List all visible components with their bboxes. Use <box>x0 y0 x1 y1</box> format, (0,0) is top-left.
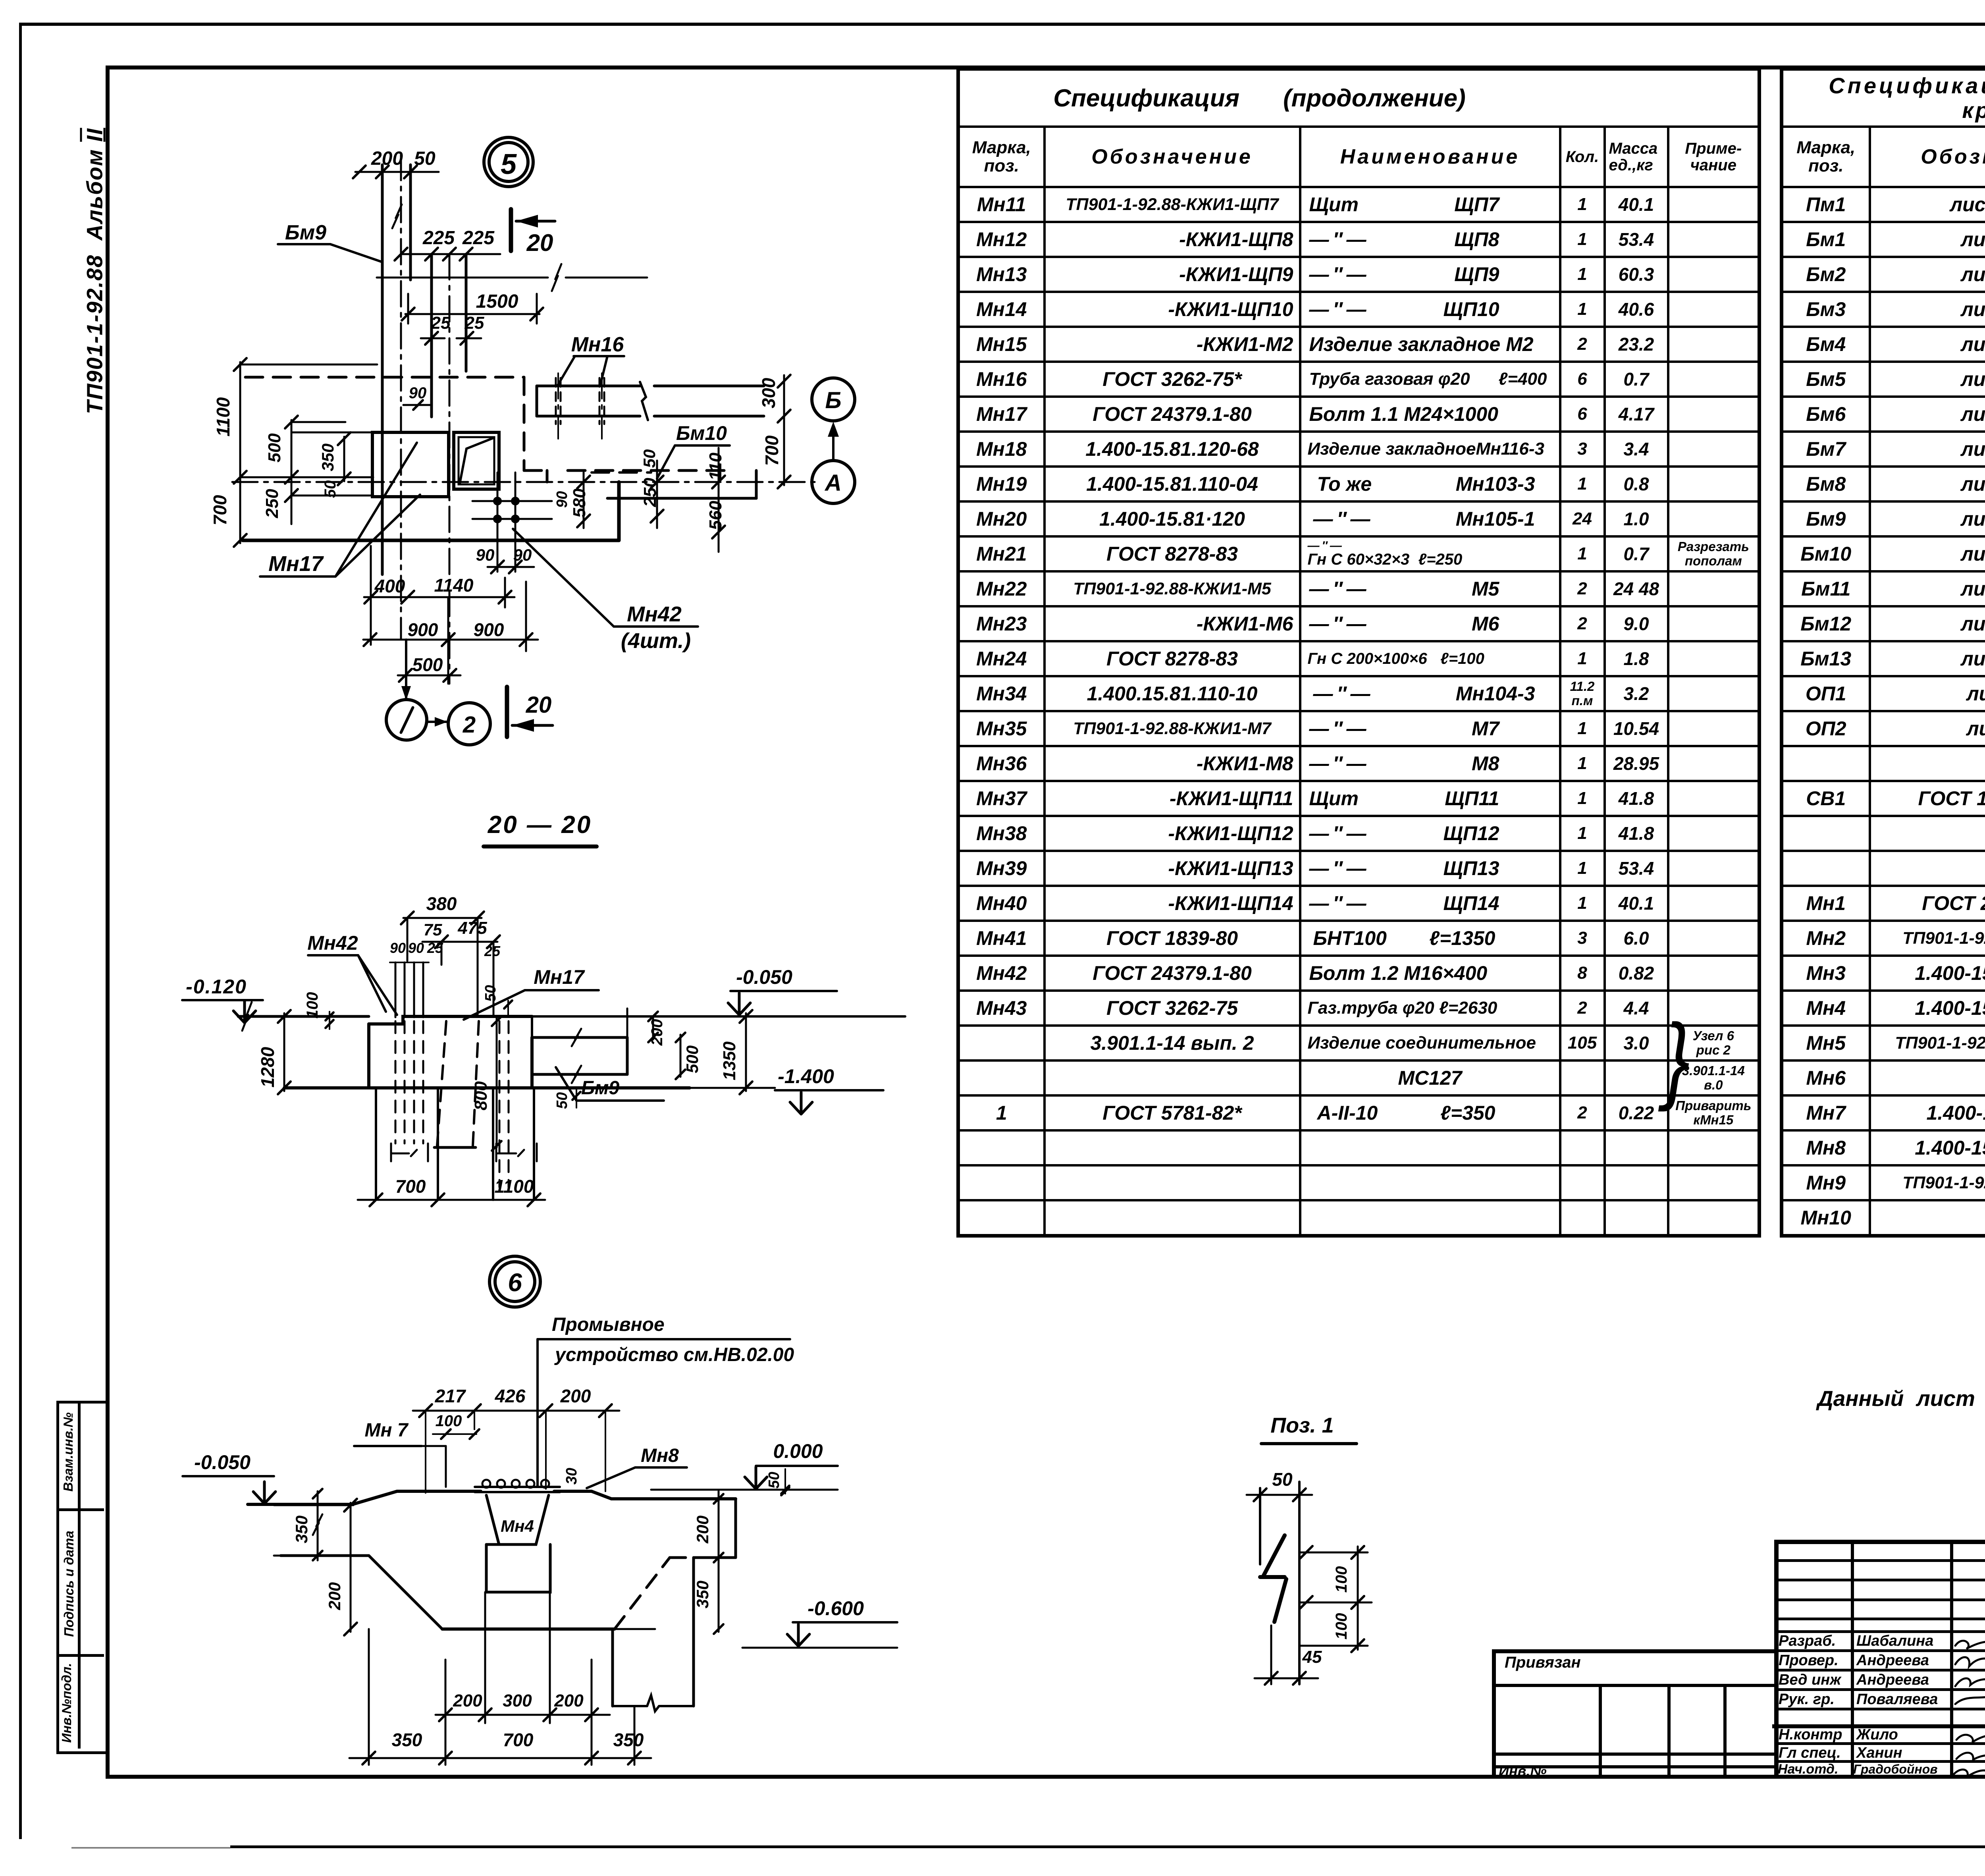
svg-text:350: 350 <box>693 1581 712 1608</box>
left dim structure <box>239 362 241 543</box>
right underground leg <box>611 1629 614 1706</box>
svg-text:580: 580 <box>570 488 589 518</box>
svg-text:Мн17: Мн17 <box>534 966 585 988</box>
node mark circle 5 <box>484 137 533 187</box>
title block (основная надпись) <box>1774 1540 1985 1544</box>
panel edge verticals <box>430 254 433 417</box>
svg-text:1350: 1350 <box>720 1041 739 1080</box>
dashed panel outline <box>245 376 524 379</box>
svg-text:500: 500 <box>683 1045 701 1073</box>
svg-text:Мн 7: Мн 7 <box>364 1420 409 1441</box>
bolt group Mn42 <box>497 472 499 572</box>
svg-text:350: 350 <box>318 443 337 471</box>
axis A dash-dot <box>232 481 815 483</box>
axis circles B/A <box>812 378 855 421</box>
svg-text:1100: 1100 <box>213 397 233 436</box>
dim 1280 <box>283 1013 285 1091</box>
trough Mn4 <box>486 1495 549 1544</box>
svg-text:20: 20 <box>526 229 553 256</box>
svg-text:5: 5 <box>501 148 517 180</box>
dim 800 <box>496 1016 498 1147</box>
svg-text:50: 50 <box>766 1472 782 1488</box>
left specification table (continuation) <box>956 67 1761 1238</box>
svg-text:90: 90 <box>390 940 406 956</box>
responsible persons rows <box>1779 1633 1836 1650</box>
svg-text:Бм9: Бм9 <box>285 221 326 244</box>
beam Bm10 plan lines <box>607 497 756 500</box>
svg-text:350: 350 <box>292 1515 311 1543</box>
svg-text:1100: 1100 <box>495 1176 534 1197</box>
svg-text:200: 200 <box>554 1691 584 1710</box>
svg-text:100: 100 <box>304 992 321 1019</box>
plan bottom edge <box>243 539 619 542</box>
left ground line <box>238 1015 369 1018</box>
svg-text:30: 30 <box>563 1468 580 1485</box>
left dims 350/200 <box>317 1491 319 1560</box>
svg-text:-1.400: -1.400 <box>778 1065 834 1087</box>
svg-text:75: 75 <box>424 920 442 939</box>
privyazan label <box>1505 1654 1581 1672</box>
svg-text:90: 90 <box>476 546 495 564</box>
svg-text:350: 350 <box>392 1729 422 1750</box>
svg-text:-0.050: -0.050 <box>736 966 792 988</box>
svg-text:700: 700 <box>761 435 782 466</box>
svg-text:(4шт.): (4шт.) <box>621 629 691 653</box>
long top line with break <box>377 277 548 279</box>
svg-text:Б: Б <box>825 388 841 413</box>
ground profile <box>248 1491 481 1504</box>
svg-text:900: 900 <box>474 619 504 640</box>
svg-text:-0.600: -0.600 <box>807 1597 864 1620</box>
svg-text:50: 50 <box>482 985 499 1002</box>
svg-text:250: 250 <box>262 489 282 519</box>
svg-text:50: 50 <box>1272 1469 1293 1490</box>
svg-text:Мн4: Мн4 <box>501 1517 534 1535</box>
pit outline <box>281 1554 369 1557</box>
svg-text:45: 45 <box>1302 1647 1322 1667</box>
dashed lower right outline <box>619 497 756 500</box>
svg-text:225: 225 <box>462 228 495 249</box>
svg-text:1500: 1500 <box>476 291 518 312</box>
svg-text:Бм10: Бм10 <box>676 422 727 444</box>
svg-text:225: 225 <box>422 228 455 249</box>
svg-text:Мн8: Мн8 <box>641 1445 679 1466</box>
slab top right <box>532 1015 905 1018</box>
solid block left with Mn17 <box>372 432 449 497</box>
svg-text:200: 200 <box>560 1386 591 1406</box>
device plate with studs <box>475 1486 560 1488</box>
svg-text:200: 200 <box>648 1019 666 1046</box>
lower dim extension verticals <box>368 1629 370 1765</box>
svg-text:6: 6 <box>508 1268 522 1297</box>
bottom line -1.400 level <box>284 1086 690 1089</box>
svg-text:500: 500 <box>412 654 443 675</box>
pipe dashes <box>555 378 557 424</box>
right dims 200/350 <box>718 1491 720 1632</box>
dim 200 50 <box>355 171 439 173</box>
svg-text:Мн16: Мн16 <box>571 333 624 356</box>
svg-text:200: 200 <box>371 148 403 169</box>
body outline <box>369 1016 532 1024</box>
node mark circle 6 <box>490 1256 540 1307</box>
svg-text:100: 100 <box>436 1412 462 1430</box>
svg-text:1140: 1140 <box>434 575 474 596</box>
svg-text:Поз. 1: Поз. 1 <box>1270 1413 1334 1437</box>
svg-text:200: 200 <box>453 1691 482 1710</box>
svg-text:900: 900 <box>408 619 438 640</box>
svg-text:200: 200 <box>325 1582 344 1610</box>
svg-text:217: 217 <box>435 1386 466 1406</box>
section cut mark 20 (top) <box>509 209 513 251</box>
general note <box>1817 1386 1985 1411</box>
slab with pipes Mn16 <box>537 385 640 388</box>
svg-text:700: 700 <box>503 1729 534 1750</box>
section mark 20 bottom <box>505 687 509 737</box>
beam Bm9 section <box>532 1036 627 1039</box>
svg-text:-0.050: -0.050 <box>194 1451 251 1473</box>
svg-text:50: 50 <box>414 148 436 169</box>
right specification table for RKM1 slab scheme <box>1780 67 1985 1238</box>
svg-text:500: 500 <box>265 433 284 463</box>
svg-text:560: 560 <box>706 501 725 530</box>
bent bar poz.1 <box>1259 1488 1261 1564</box>
marker circles 1 and 2 <box>386 700 427 740</box>
svg-text:Бм9: Бм9 <box>581 1078 619 1099</box>
svg-text:50: 50 <box>554 1092 570 1109</box>
dims 100 100 <box>1299 1552 1368 1554</box>
svg-text:20: 20 <box>526 692 552 718</box>
svg-text:380: 380 <box>426 893 457 914</box>
svg-text:400: 400 <box>374 576 405 596</box>
svg-text:-0.120: -0.120 <box>186 976 247 998</box>
svg-text:700: 700 <box>395 1176 426 1197</box>
inner drawing frame <box>106 66 1985 69</box>
outer thin sheet border <box>19 23 1985 26</box>
svg-text:475: 475 <box>457 918 487 938</box>
svg-text:25: 25 <box>464 313 484 333</box>
svg-text:110: 110 <box>706 452 725 480</box>
pile dowels <box>499 1021 501 1187</box>
svg-text:700: 700 <box>210 495 230 525</box>
svg-text:800: 800 <box>471 1081 491 1111</box>
svg-text:Мн17: Мн17 <box>268 552 324 576</box>
svg-text:1280: 1280 <box>257 1047 278 1087</box>
svg-text:200: 200 <box>693 1515 712 1544</box>
svg-text:90: 90 <box>409 384 427 402</box>
trapezoid anchor pocket <box>437 1021 446 1146</box>
svg-text:50: 50 <box>640 449 659 468</box>
anchor bolts Mn42 <box>395 962 397 1017</box>
svg-text:А: А <box>824 470 842 496</box>
dim 1500 <box>405 313 540 315</box>
svg-text:20 — 20: 20 — 20 <box>488 811 592 839</box>
piles <box>375 1088 377 1200</box>
paper bottom edge line <box>230 1845 1985 1848</box>
left margin stamp boxes <box>56 1401 110 1754</box>
svg-text:90: 90 <box>513 546 532 564</box>
svg-text:0.000: 0.000 <box>773 1440 823 1462</box>
svg-text:устройство см.НВ.02.00: устройство см.НВ.02.00 <box>554 1344 794 1365</box>
svg-text:300: 300 <box>503 1691 532 1710</box>
svg-text:25: 25 <box>484 943 501 959</box>
svg-text:100: 100 <box>1333 1566 1350 1593</box>
svg-text:100: 100 <box>1333 1613 1350 1640</box>
svg-text:Мн42: Мн42 <box>627 602 682 626</box>
svg-text:25: 25 <box>431 313 451 333</box>
svg-text:90: 90 <box>408 940 424 956</box>
svg-text:2: 2 <box>463 712 476 738</box>
left margin album designation (rotated) <box>82 96 108 446</box>
svg-text:Мн42: Мн42 <box>307 932 358 954</box>
svg-text:90: 90 <box>554 491 570 508</box>
beam Bm9 vertical lines <box>381 165 384 575</box>
svg-text:25: 25 <box>427 940 443 956</box>
svg-text:Промывное: Промывное <box>552 1314 665 1335</box>
svg-text:350: 350 <box>613 1729 644 1750</box>
svg-text:426: 426 <box>495 1386 526 1406</box>
svg-text:300: 300 <box>758 378 779 408</box>
right dim vertical 300/700 <box>783 375 785 485</box>
right dims 200/500/1350 <box>626 1008 628 1040</box>
note brace in remarks column <box>1664 1003 1690 1114</box>
